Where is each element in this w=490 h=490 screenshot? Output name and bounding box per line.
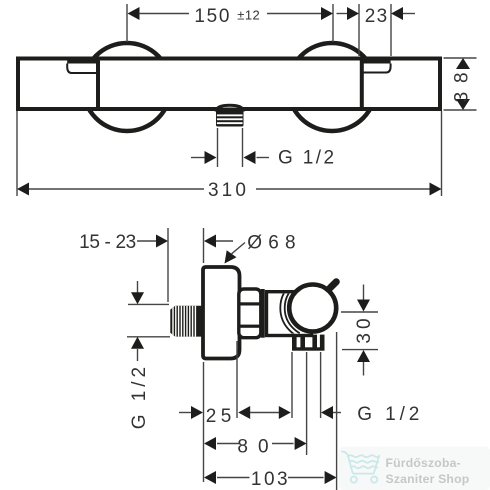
bar bottom edge over dome	[215, 108, 245, 112]
right segment line	[360, 59, 364, 110]
bottom outlet thread	[292, 335, 297, 350]
dimension 150 line and arrows	[128, 7, 140, 20]
svg-text:25: 25	[206, 406, 236, 427]
left clip slot	[67, 60, 98, 64]
svg-text:38: 38	[452, 64, 473, 103]
valve body	[267, 292, 312, 336]
svg-text:±12: ±12	[237, 7, 260, 22]
hex nut	[239, 289, 261, 338]
svg-text:Fürdőszoba-: Fürdőszoba-	[386, 456, 461, 470]
cart icon	[342, 452, 379, 483]
dimension 38 extension lines	[444, 57, 477, 59]
svg-text:G 1/2: G 1/2	[129, 363, 150, 429]
escutcheon plate side	[203, 267, 240, 359]
dimension G 1/2 bottom arrow	[321, 406, 333, 419]
dimension 15-23 extension lines	[167, 228, 169, 302]
svg-text:Szaniter Shop: Szaniter Shop	[386, 472, 470, 486]
outlet dome	[217, 105, 244, 110]
dimension 23 extension lines	[358, 4, 360, 56]
svg-text:15 - 23: 15 - 23	[79, 232, 136, 253]
mixer bar body	[18, 59, 440, 110]
washer bar	[261, 289, 265, 338]
dimension 15-23 arrows	[137, 240, 156, 242]
svg-text:150: 150	[194, 6, 231, 27]
dimension 150 extension lines	[126, 4, 128, 42]
svg-text:23: 23	[365, 6, 389, 27]
left escutcheon circle	[83, 43, 171, 131]
dimension 103	[204, 471, 216, 484]
svg-text:310: 310	[208, 180, 249, 201]
svg-text:103: 103	[251, 469, 290, 490]
diameter 68 leader	[225, 250, 237, 263]
dimension 30	[363, 285, 365, 300]
shared arrows between 25 and G 1/2	[238, 406, 250, 419]
wall thread nipple G 1/2	[170, 306, 203, 337]
dimension 25 arrows	[179, 412, 191, 414]
svg-text:80: 80	[237, 436, 278, 457]
dimension 310 extension lines	[16, 111, 18, 196]
svg-text:Ø68: Ø68	[247, 233, 302, 254]
logo tile	[339, 447, 490, 490]
svg-text:30: 30	[354, 314, 375, 343]
left vertical dim lines	[137, 281, 139, 293]
dimension 38 arrows	[456, 58, 470, 69]
dimension 80	[204, 437, 216, 450]
right clip slot	[362, 60, 391, 64]
svg-text:G 1/2: G 1/2	[278, 147, 336, 168]
dimension G 1/2 top extension lines	[217, 128, 219, 167]
dimension 23 arrows	[337, 13, 348, 15]
left segment line	[96, 59, 100, 110]
handle stub	[330, 282, 336, 288]
dimension 310 line and arrows	[17, 183, 29, 196]
right escutcheon circle	[288, 43, 376, 131]
outlet thread block	[216, 111, 244, 127]
svg-text:G 1/2: G 1/2	[357, 404, 423, 425]
handle skirt arcs	[280, 276, 343, 339]
thermostat handle circle	[289, 285, 336, 332]
dimension G 1/2 top arrows	[191, 157, 205, 159]
bottom extension lines	[203, 362, 205, 482]
